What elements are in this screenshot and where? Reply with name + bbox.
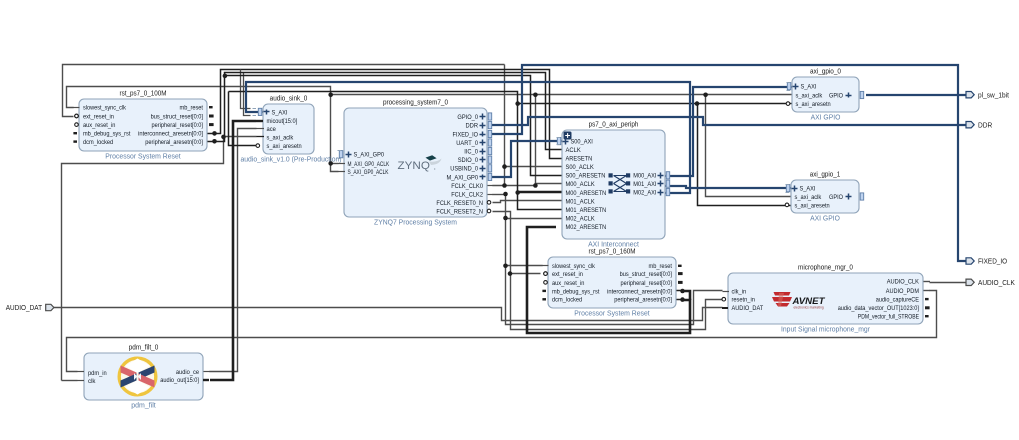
svg-text:DDR: DDR (978, 120, 992, 129)
svg-text:M02_ACLK: M02_ACLK (566, 215, 596, 222)
svg-text:DDR: DDR (466, 123, 479, 130)
svg-text:S00_ACLK: S00_ACLK (566, 164, 595, 171)
svg-text:aux_reset_in: aux_reset_in (83, 122, 116, 129)
svg-text:s_axi_aclk: s_axi_aclk (795, 194, 823, 201)
svg-text:slowest_sync_clk: slowest_sync_clk (83, 105, 127, 112)
svg-text:peripheral_aresetn[0:0]: peripheral_aresetn[0:0] (614, 297, 672, 304)
svg-text:ps7_0_axi_periph: ps7_0_axi_periph (589, 120, 639, 129)
svg-text:aux_reset_in: aux_reset_in (552, 280, 585, 287)
svg-text:ZYNQ: ZYNQ (398, 160, 431, 172)
svg-text:audio_out[15:0]: audio_out[15:0] (160, 377, 199, 384)
svg-text:S_AXI_GP0_ACLK: S_AXI_GP0_ACLK (348, 169, 390, 176)
svg-text:rst_ps7_0_100M: rst_ps7_0_100M (120, 89, 167, 98)
svg-text:ace: ace (267, 126, 277, 133)
svg-text:FCLK_RESET0_N: FCLK_RESET0_N (436, 200, 483, 207)
svg-text:peripheral_reset[0:0]: peripheral_reset[0:0] (152, 122, 204, 129)
svg-text:mb_debug_sys_rst: mb_debug_sys_rst (83, 131, 131, 138)
svg-text:pl_sw_1bit: pl_sw_1bit (978, 90, 1009, 99)
svg-text:AXI GPIO: AXI GPIO (810, 214, 840, 223)
svg-text:Input Signal microphone_mgr: Input Signal microphone_mgr (781, 325, 870, 334)
svg-text:interconnect_aresetn[0:0]: interconnect_aresetn[0:0] (607, 288, 672, 295)
svg-text:AUDIO_DAT: AUDIO_DAT (6, 303, 43, 312)
svg-text:AVNET: AVNET (791, 296, 825, 306)
svg-text:M00_ARESETN: M00_ARESETN (566, 190, 607, 197)
svg-text:.: . (434, 161, 437, 171)
svg-text:pdm_filt_0: pdm_filt_0 (129, 343, 159, 352)
svg-text:Processor System Reset: Processor System Reset (574, 309, 650, 318)
svg-text:M_AXI_GP0_ACLK: M_AXI_GP0_ACLK (348, 161, 390, 168)
svg-text:S_AXI_GP0: S_AXI_GP0 (354, 152, 385, 159)
svg-text:resetn_in: resetn_in (732, 297, 756, 304)
svg-text:audio_data_vector_OUT[1023:0]: audio_data_vector_OUT[1023:0] (838, 305, 919, 312)
svg-text:rst_ps7_0_160M: rst_ps7_0_160M (589, 247, 636, 256)
svg-text:M00_AXI: M00_AXI (633, 173, 656, 180)
svg-text:s_axi_aclk: s_axi_aclk (267, 134, 295, 141)
svg-text:s_axi_aresetn: s_axi_aresetn (267, 143, 303, 150)
svg-text:S00_ARESETN: S00_ARESETN (566, 173, 606, 180)
svg-text:audio_ce: audio_ce (176, 369, 199, 376)
svg-text:M_AXI_GP0: M_AXI_GP0 (447, 174, 479, 181)
svg-text:FCLK_RESET2_N: FCLK_RESET2_N (436, 208, 483, 215)
svg-text:s_axi_aresetn: s_axi_aresetn (795, 202, 831, 209)
svg-text:ext_reset_in: ext_reset_in (83, 113, 114, 120)
svg-text:AUDIO_CLK: AUDIO_CLK (978, 278, 1015, 287)
svg-text:peripheral_aresetn[0:0]: peripheral_aresetn[0:0] (145, 139, 203, 146)
svg-text:AUDIO_PDM: AUDIO_PDM (886, 288, 919, 295)
svg-text:IIC_0: IIC_0 (464, 149, 478, 156)
svg-text:microphone_mgr_0: microphone_mgr_0 (798, 263, 853, 272)
svg-text:electronics marketing: electronics marketing (794, 306, 824, 310)
svg-text:ACLK: ACLK (566, 147, 582, 154)
svg-text:S_AXI: S_AXI (800, 186, 816, 193)
svg-text:mb_reset: mb_reset (180, 105, 204, 112)
svg-text:S_AXI: S_AXI (801, 84, 817, 91)
svg-text:pdm_filt: pdm_filt (131, 401, 156, 410)
svg-text:M01_AXI: M01_AXI (633, 181, 656, 188)
svg-text:audio_sink_v1.0 (Pre-Productio: audio_sink_v1.0 (Pre-Production) (240, 155, 342, 164)
svg-text:FIXED_IO: FIXED_IO (453, 131, 479, 138)
svg-text:SDIO_0: SDIO_0 (458, 157, 479, 164)
svg-text:GPIO_0: GPIO_0 (457, 114, 478, 121)
svg-text:interconnect_aresetn[0:0]: interconnect_aresetn[0:0] (138, 131, 203, 138)
svg-text:Processor System Reset: Processor System Reset (105, 152, 181, 161)
svg-text:GPIO: GPIO (829, 92, 843, 99)
svg-text:processing_system7_0: processing_system7_0 (383, 98, 448, 107)
svg-text:S00_AXI: S00_AXI (571, 139, 593, 146)
svg-text:ext_reset_in: ext_reset_in (552, 271, 583, 278)
svg-text:bus_struct_reset[0:0]: bus_struct_reset[0:0] (151, 113, 204, 120)
svg-text:dcm_locked: dcm_locked (552, 297, 583, 304)
svg-text:AUDIO_DAT: AUDIO_DAT (732, 305, 764, 312)
svg-text:S_AXI: S_AXI (272, 109, 288, 116)
svg-text:slowest_sync_clk: slowest_sync_clk (552, 263, 596, 270)
svg-text:M02_ARESETN: M02_ARESETN (566, 224, 607, 231)
svg-text:FCLK_CLK0: FCLK_CLK0 (451, 183, 483, 190)
svg-text:AXI GPIO: AXI GPIO (811, 113, 841, 122)
svg-text:s_axi_aclk: s_axi_aclk (796, 92, 824, 99)
svg-text:FIXED_IO: FIXED_IO (978, 257, 1007, 266)
svg-text:USBIND_0: USBIND_0 (450, 166, 478, 173)
svg-text:ARESETN: ARESETN (566, 156, 593, 163)
svg-text:mb_reset: mb_reset (649, 263, 673, 270)
svg-text:axi_gpio_0: axi_gpio_0 (810, 67, 841, 76)
svg-text:UART_0: UART_0 (456, 140, 478, 147)
svg-text:AUDIO_CLK: AUDIO_CLK (887, 279, 920, 286)
svg-text:M01_ARESETN: M01_ARESETN (566, 207, 607, 214)
svg-text:M00_ACLK: M00_ACLK (566, 181, 596, 188)
svg-text:dcm_locked: dcm_locked (83, 139, 114, 146)
svg-text:s_axi_aresetn: s_axi_aresetn (796, 101, 832, 108)
svg-text:M02_AXI: M02_AXI (633, 190, 656, 197)
svg-text:peripheral_reset[0:0]: peripheral_reset[0:0] (621, 280, 673, 287)
svg-text:bus_struct_reset[0:0]: bus_struct_reset[0:0] (620, 271, 673, 278)
svg-text:FCLK_CLK2: FCLK_CLK2 (451, 192, 483, 199)
svg-text:GPIO: GPIO (829, 194, 843, 201)
svg-text:audio_sink_0: audio_sink_0 (270, 94, 308, 103)
svg-text:micout[15:0]: micout[15:0] (267, 118, 298, 125)
svg-text:pdm_in: pdm_in (88, 370, 107, 377)
svg-text:clk_in: clk_in (732, 288, 747, 295)
svg-text:PDM_vector_full_STROBE: PDM_vector_full_STROBE (858, 314, 919, 321)
svg-text:mb_debug_sys_rst: mb_debug_sys_rst (552, 288, 600, 295)
svg-text:axi_gpio_1: axi_gpio_1 (810, 170, 841, 179)
svg-text:M01_ACLK: M01_ACLK (566, 198, 596, 205)
svg-text:clk: clk (88, 378, 96, 385)
svg-text:audio_captureCE: audio_captureCE (876, 297, 919, 304)
svg-text:ZYNQ7 Processing System: ZYNQ7 Processing System (374, 218, 457, 227)
